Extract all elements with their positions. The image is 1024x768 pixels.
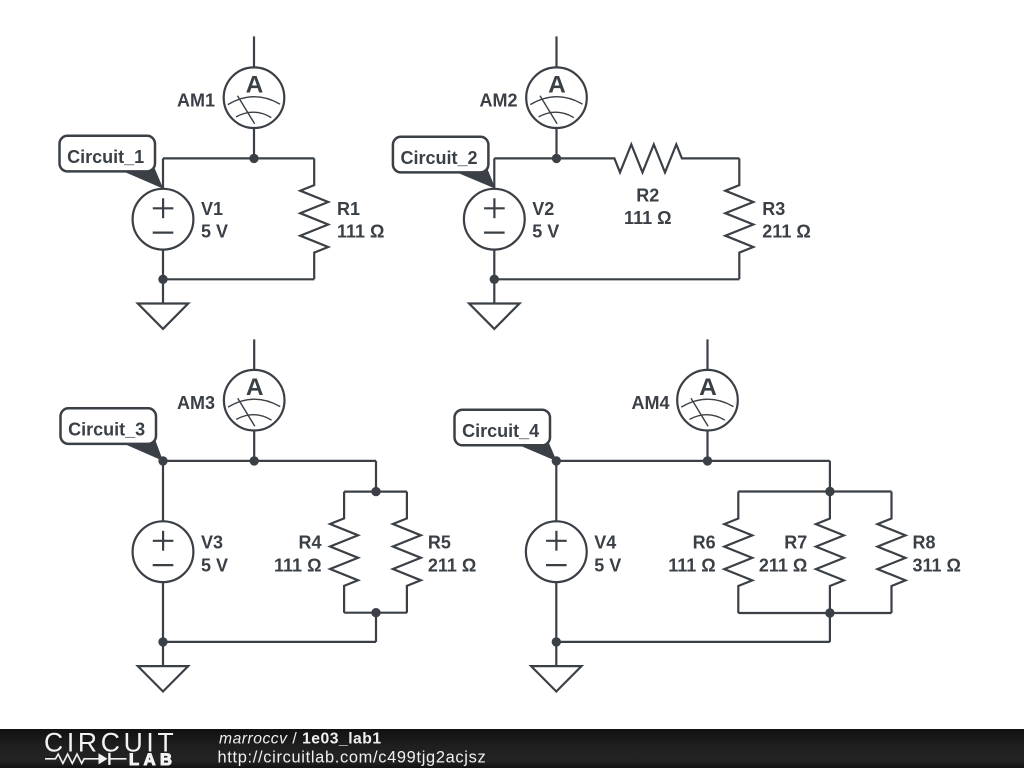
node junction parallel bottom — [825, 608, 834, 617]
svg-text:R7: R7 — [784, 532, 807, 552]
wire parallel bottom bar — [738, 612, 891, 614]
resistor R2 — [494, 144, 739, 172]
wire bottom Circuit_4 — [556, 641, 830, 643]
svg-text:http://circuitlab.com/c499tjg2: http://circuitlab.com/c499tjg2acjsz — [218, 748, 487, 766]
value labels R4 111 ohm — [274, 532, 321, 575]
value labels R3 211 ohm — [762, 199, 810, 241]
node junction parallel top — [371, 487, 380, 496]
value labels V1 5 V — [201, 199, 228, 241]
svg-text:211 Ω: 211 Ω — [759, 556, 807, 576]
annotation callout Circuit_3 — [61, 408, 164, 461]
svg-text:R6: R6 — [693, 532, 716, 552]
node junction V2/ground — [490, 275, 499, 284]
svg-text:111 Ω: 111 Ω — [668, 556, 715, 576]
svg-text:Circuit_1: Circuit_1 — [67, 147, 144, 167]
value labels R5 211 ohm — [428, 532, 476, 575]
node junction V4/ground — [552, 637, 561, 646]
node junction V1/ground — [158, 275, 167, 284]
resistor R6 — [724, 492, 752, 614]
value labels V2 5 V — [532, 199, 559, 241]
ammeter AM4 — [677, 370, 738, 431]
svg-text:R3: R3 — [762, 199, 785, 219]
svg-text:marroccv / 1e03_lab1: marroccv / 1e03_lab1 — [219, 731, 382, 748]
wire from parallel pair — [375, 613, 377, 642]
voltage source V3 — [133, 521, 194, 582]
wire V3 bottom lead — [162, 582, 164, 642]
svg-text:V1: V1 — [201, 199, 223, 219]
ground — [138, 642, 188, 692]
wire AM2 bottom lead — [555, 128, 557, 158]
annotation callout Circuit_4 — [455, 410, 557, 462]
svg-text:211 Ω: 211 Ω — [762, 222, 810, 242]
ground — [469, 279, 519, 329]
svg-text:A: A — [246, 374, 264, 401]
resistor R1 — [300, 158, 328, 279]
svg-text:V3: V3 — [201, 532, 223, 552]
svg-text:R8: R8 — [913, 532, 936, 552]
wire V1 top lead — [162, 158, 164, 188]
wire AM4 bottom lead — [706, 431, 708, 461]
wire top Circuit_3 — [163, 460, 376, 462]
wire parallel top bar — [738, 490, 891, 492]
svg-text:AM4: AM4 — [632, 393, 670, 413]
svg-text:R4: R4 — [298, 532, 321, 552]
resistor R5 — [393, 492, 421, 613]
wire AM2 top lead — [555, 36, 557, 67]
voltage source V1 — [133, 189, 194, 250]
node junction AM4/top wire — [703, 456, 712, 465]
node junction callout Circuit_3 — [158, 456, 167, 465]
wire AM4 top lead — [706, 339, 708, 370]
wire top Circuit_1 — [163, 157, 314, 159]
node junction V3/ground — [158, 637, 167, 646]
wire AM3 bottom lead — [253, 431, 255, 461]
voltage source V2 — [464, 189, 525, 250]
value labels V4 5 V — [594, 532, 621, 575]
svg-text:V2: V2 — [532, 199, 554, 219]
ground — [138, 279, 188, 329]
wire parallel top bar — [344, 491, 407, 493]
value labels R2 111 ohm — [624, 186, 671, 228]
ammeter AM2 — [526, 67, 587, 128]
wire AM3 top lead — [253, 339, 255, 370]
svg-text:Circuit_2: Circuit_2 — [401, 148, 478, 168]
resistor R8 — [878, 492, 906, 614]
value labels R6 111 ohm — [668, 532, 715, 575]
svg-text:Circuit_3: Circuit_3 — [68, 420, 145, 440]
wire bottom Circuit_2 — [494, 278, 739, 280]
footer bar — [0, 729, 1024, 768]
svg-text:A: A — [246, 72, 264, 99]
svg-text:AM1: AM1 — [177, 91, 215, 111]
svg-text:311 Ω: 311 Ω — [913, 556, 961, 576]
wire from parallel trio — [829, 613, 831, 642]
wire V1 bottom lead — [162, 250, 164, 280]
svg-text:211 Ω: 211 Ω — [428, 556, 476, 576]
node junction callout Circuit_4 — [552, 456, 561, 465]
resistor R7 — [816, 492, 844, 614]
svg-text:111 Ω: 111 Ω — [337, 222, 384, 242]
annotation callout Circuit_1 — [60, 136, 164, 189]
node junction parallel bottom — [371, 608, 380, 617]
wire AM1 top lead — [253, 36, 255, 67]
wire to parallel trio — [829, 461, 831, 492]
value labels R7 211 ohm — [759, 532, 807, 575]
svg-text:5 V: 5 V — [201, 222, 228, 242]
wire top Circuit_4 — [556, 460, 830, 462]
svg-text:A: A — [699, 374, 717, 401]
ammeter AM3 — [224, 370, 285, 431]
wire V2 top lead — [493, 158, 495, 188]
svg-text:R2: R2 — [636, 186, 659, 206]
node junction parallel top — [825, 487, 834, 496]
svg-text:5 V: 5 V — [594, 556, 621, 576]
node junction AM3/top wire — [250, 456, 259, 465]
wire AM1 bottom lead — [253, 128, 255, 158]
svg-text:5 V: 5 V — [532, 222, 559, 242]
svg-text:LAB: LAB — [129, 751, 176, 768]
wire V4 bottom lead — [555, 582, 557, 642]
svg-text:Circuit_4: Circuit_4 — [462, 421, 539, 441]
svg-text:A: A — [548, 72, 566, 99]
wire to parallel pair — [375, 461, 377, 492]
svg-text:R5: R5 — [428, 532, 451, 552]
svg-text:R1: R1 — [337, 199, 360, 219]
node junction AM2/top wire — [552, 154, 561, 163]
resistor R4 — [330, 492, 358, 613]
value labels V3 5 V — [201, 532, 228, 575]
value labels R1 111 ohm — [337, 199, 384, 241]
wire V4 top lead — [555, 461, 557, 521]
annotation callout Circuit_2 — [393, 137, 496, 189]
wire parallel bottom bar — [344, 612, 407, 614]
wire V2 bottom lead — [493, 250, 495, 280]
node junction AM1/top wire — [249, 154, 258, 163]
voltage source V4 — [526, 521, 587, 582]
svg-text:V4: V4 — [594, 532, 616, 552]
wire bottom Circuit_3 — [163, 641, 376, 643]
svg-text:111 Ω: 111 Ω — [624, 208, 671, 228]
CircuitLab logo resistor-diode glyph — [45, 753, 127, 765]
svg-text:5 V: 5 V — [201, 556, 228, 576]
svg-text:111 Ω: 111 Ω — [274, 556, 321, 576]
value labels R8 311 ohm — [913, 532, 961, 575]
ground — [531, 642, 581, 692]
wire bottom Circuit_1 — [163, 278, 314, 280]
wire V3 top lead — [162, 461, 164, 521]
svg-text:AM3: AM3 — [177, 393, 215, 413]
svg-text:AM2: AM2 — [480, 91, 518, 111]
resistor R3 — [725, 158, 753, 279]
ammeter AM1 — [224, 67, 285, 128]
